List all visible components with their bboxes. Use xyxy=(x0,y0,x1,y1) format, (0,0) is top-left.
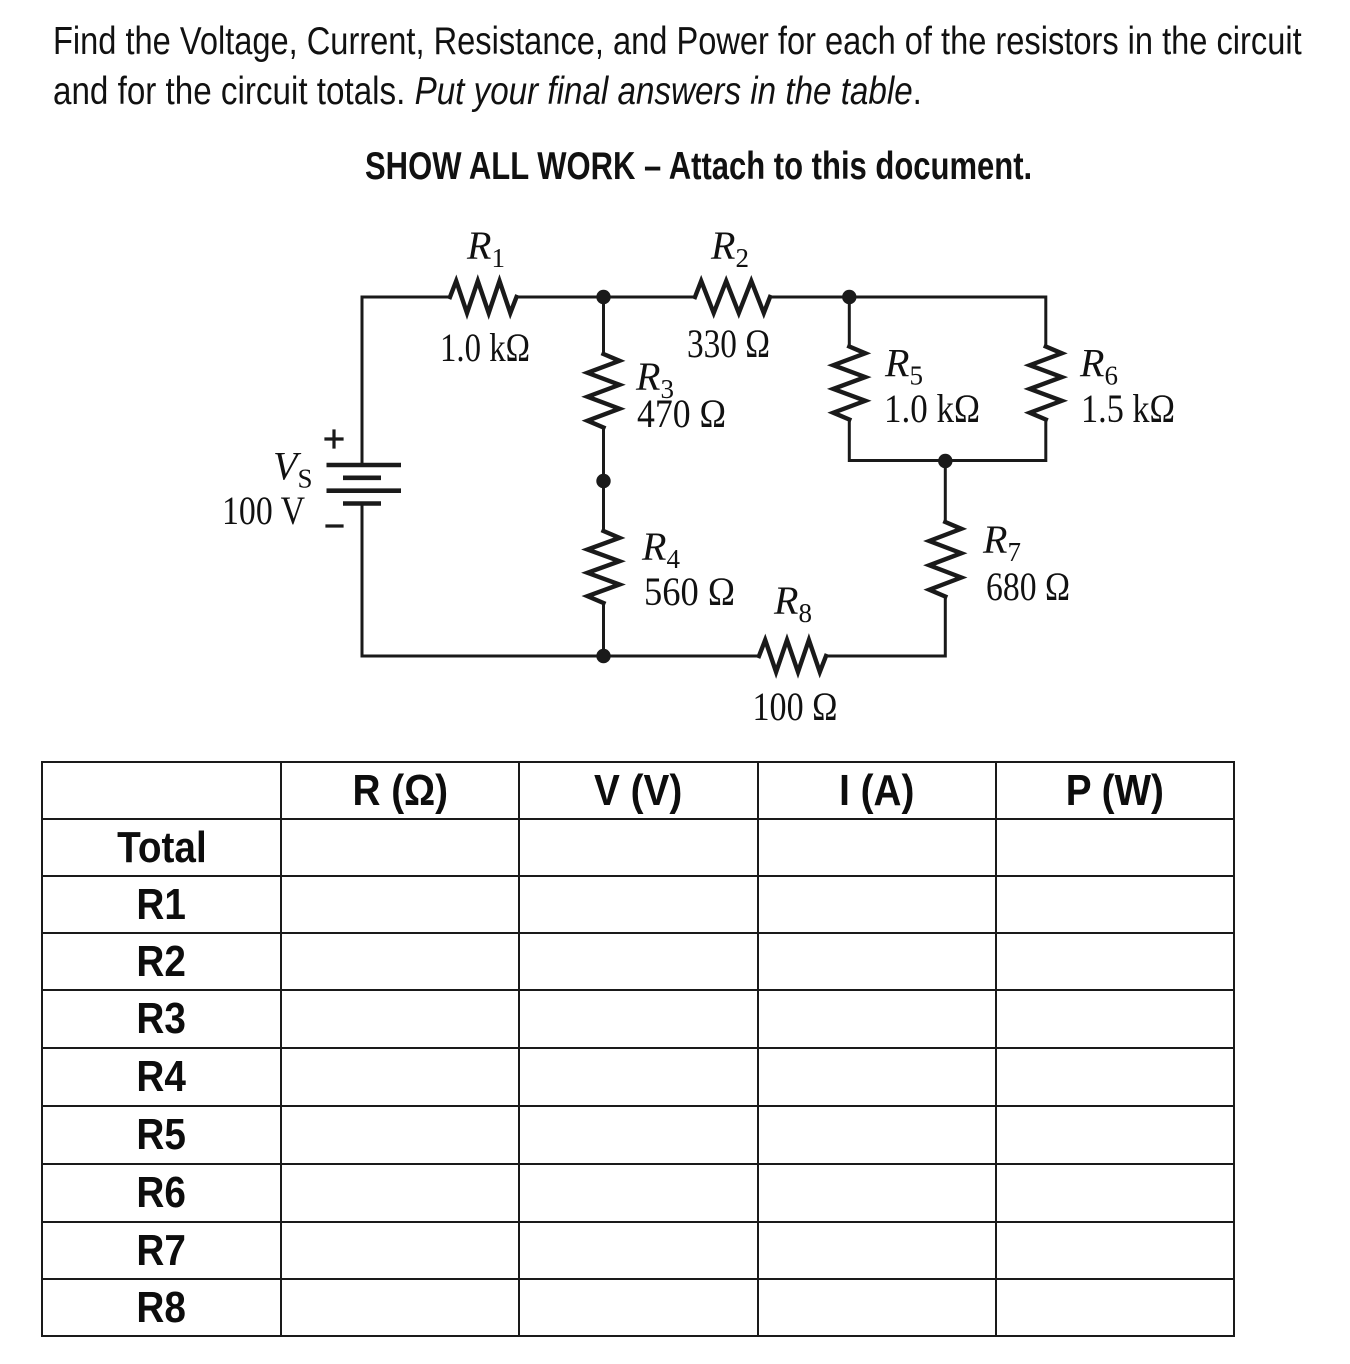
wire: R3 bottom to node E xyxy=(602,428,605,482)
wire: bottom rail from node D to R8 xyxy=(604,655,760,658)
wire: R7 bottom to bottom rail corner xyxy=(826,597,945,657)
resistor R4 xyxy=(588,531,620,603)
battery VS plate 1 long xyxy=(327,463,402,468)
wire: node C down to R7 xyxy=(944,461,947,522)
svg-text:R5: R5 xyxy=(884,341,923,391)
svg-text:R7: R7 xyxy=(982,517,1021,567)
wire: node B down to R5 xyxy=(848,297,851,347)
resistor R6 xyxy=(1030,347,1062,420)
svg-text:R4: R4 xyxy=(641,524,680,574)
node E junction dot xyxy=(596,474,610,488)
svg-text:680 Ω: 680 Ω xyxy=(986,564,1070,609)
svg-text:VS: VS xyxy=(273,444,312,494)
resistor R1 xyxy=(450,281,517,313)
svg-text:R1: R1 xyxy=(466,223,505,273)
wire: node B to top right corner and down to R6 xyxy=(849,297,1046,347)
wire: R2 to node B xyxy=(770,296,849,299)
svg-text:330 Ω: 330 Ω xyxy=(687,321,770,366)
instruction text line 2 xyxy=(53,70,922,114)
svg-text:1.0 kΩ: 1.0 kΩ xyxy=(884,386,980,431)
circuit schematic xyxy=(0,0,1350,760)
battery + polarity mark xyxy=(326,431,342,447)
node C junction dot xyxy=(938,454,952,468)
svg-text:560 Ω: 560 Ω xyxy=(644,569,735,614)
wire: R5 bottom to node C to R6 bottom xyxy=(849,420,1046,461)
wire: R4 bottom to node D xyxy=(602,603,605,656)
wire: R1 to node A xyxy=(517,296,604,299)
wire: top-left from battery + up and right to R1 xyxy=(362,297,450,465)
svg-text:1.0 kΩ: 1.0 kΩ xyxy=(440,325,530,370)
node B junction dot xyxy=(842,290,856,304)
wire: node E down to R4 xyxy=(602,481,605,531)
wire: node A to R2 xyxy=(604,296,696,299)
resistor R7 xyxy=(929,522,961,597)
resistor R8 xyxy=(759,640,826,672)
answer table xyxy=(41,761,1235,1337)
battery VS plate 2 short xyxy=(343,475,381,480)
instruction text line 1 xyxy=(53,20,1302,64)
svg-text:1.5 kΩ: 1.5 kΩ xyxy=(1081,386,1175,431)
node A junction dot xyxy=(596,290,610,304)
resistor R3 xyxy=(588,354,620,428)
battery VS plate 4 short xyxy=(343,501,381,506)
svg-text:R6: R6 xyxy=(1079,341,1118,391)
svg-text:100 V: 100 V xyxy=(222,488,305,533)
heading SHOW ALL WORK xyxy=(365,145,1032,189)
resistor R2 xyxy=(695,281,770,313)
node D junction dot xyxy=(596,649,610,663)
wire: bottom rail left from battery - to node D xyxy=(362,504,604,657)
battery - polarity mark xyxy=(327,524,342,527)
svg-text:470 Ω: 470 Ω xyxy=(637,391,726,436)
svg-text:R2: R2 xyxy=(710,223,749,273)
resistor R5 xyxy=(833,347,865,420)
wire: node A down to R3 xyxy=(602,297,605,354)
battery VS plate 3 long xyxy=(327,488,402,493)
svg-text:R8: R8 xyxy=(773,578,812,628)
svg-text:100 Ω: 100 Ω xyxy=(753,684,838,729)
